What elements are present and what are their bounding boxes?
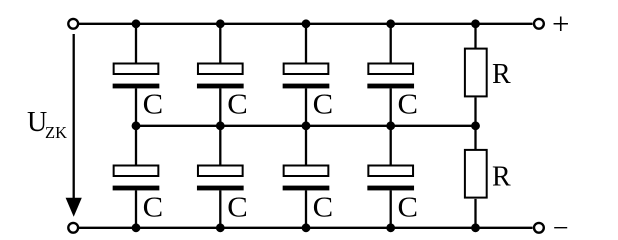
node: bottom rail junction col2: [216, 223, 225, 232]
wire: top rail (+): [79, 23, 533, 25]
svg-text:R: R: [492, 59, 511, 90]
terminal: bottom-right open circle (-): [534, 223, 544, 233]
node: bottom rail junction resistor column: [471, 223, 480, 232]
terminal: bottom-left open circle: [68, 223, 78, 233]
capacitor C6 (column 2, bottom row): [197, 126, 248, 228]
label U_ZK: [27, 107, 67, 142]
svg-text:C: C: [227, 89, 248, 120]
node: middle rail junction col4: [386, 121, 395, 130]
wire: U_ZK measurement line (left vertical): [73, 34, 75, 199]
node: top rail junction col1: [132, 19, 141, 28]
node: top rail junction col3: [302, 19, 311, 28]
svg-text:C: C: [313, 89, 334, 120]
terminal: top-left open circle: [68, 19, 78, 29]
svg-text:C: C: [143, 89, 164, 120]
node: top rail junction col4: [386, 19, 395, 28]
svg-text:+: +: [552, 6, 569, 41]
node: top rail junction resistor column: [471, 19, 480, 28]
label: - terminal: [553, 213, 569, 240]
capacitor C3 (column 3, top row): [283, 24, 334, 126]
svg-text:ZK: ZK: [45, 123, 67, 142]
capacitor C2 (column 2, top row): [197, 24, 248, 126]
svg-text:C: C: [313, 192, 334, 223]
capacitor C5 (column 1, bottom row): [113, 126, 164, 228]
svg-text:C: C: [398, 89, 419, 120]
wire: bottom rail (-): [79, 227, 533, 229]
label: + terminal: [552, 6, 569, 41]
capacitor C4 (column 4, top row): [367, 24, 418, 126]
node: middle rail junction col3: [302, 121, 311, 130]
wire: middle rail: [136, 125, 476, 127]
node: middle rail junction col1: [132, 121, 141, 130]
resistor R1 (top balancing resistor): [465, 24, 511, 126]
node: top rail junction col2: [216, 19, 225, 28]
node: middle rail junction col2: [216, 121, 225, 130]
node: bottom rail junction col1: [132, 223, 141, 232]
svg-text:R: R: [492, 161, 511, 192]
svg-text:C: C: [227, 192, 248, 223]
terminal: top-right open circle (+): [534, 19, 544, 29]
svg-text:C: C: [143, 192, 164, 223]
capacitor C1 (column 1, top row): [113, 24, 164, 126]
svg-text:C: C: [398, 192, 419, 223]
svg-text:−: −: [553, 213, 569, 240]
node: bottom rail junction col4: [386, 223, 395, 232]
node: middle rail junction resistor column: [471, 121, 480, 130]
arrow: U_ZK arrowhead pointing down: [66, 198, 82, 217]
capacitor C7 (column 3, bottom row): [283, 126, 334, 228]
resistor R2 (bottom balancing resistor): [465, 126, 511, 228]
capacitor C8 (column 4, bottom row): [367, 126, 418, 228]
node: bottom rail junction col3: [302, 223, 311, 232]
